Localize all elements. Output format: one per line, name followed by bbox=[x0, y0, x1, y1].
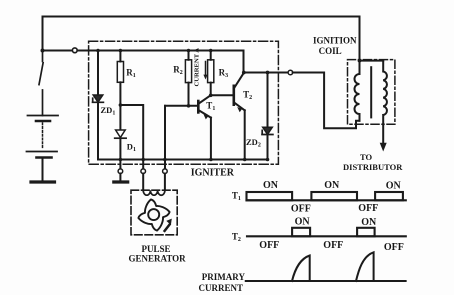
wire T1 collector to T2 base bbox=[211, 94, 234, 96]
svg-text:T1: T1 bbox=[206, 101, 215, 113]
node R1 top bbox=[119, 49, 123, 53]
wire output to coil primary bbox=[293, 73, 360, 129]
resistor R3 bbox=[208, 60, 214, 83]
resistor R2 bbox=[185, 60, 191, 83]
wire D1 to rail bbox=[119, 138, 121, 159]
svg-text:ON: ON bbox=[263, 180, 279, 191]
node R3 top bbox=[209, 49, 213, 53]
wire pin to ground bbox=[119, 174, 121, 181]
svg-text:IGNITION: IGNITION bbox=[313, 35, 357, 45]
wire T2 emitter to rail bbox=[244, 110, 246, 159]
current A arrow bbox=[205, 62, 207, 77]
coil secondary winding bbox=[383, 61, 387, 125]
wire R1 top lead bbox=[119, 51, 121, 62]
svg-text:ZD2: ZD2 bbox=[246, 137, 261, 149]
node T2 collector / output bbox=[242, 71, 246, 75]
wire ZD2 upper bbox=[267, 73, 269, 128]
svg-text:OFF: OFF bbox=[384, 242, 404, 253]
waveform primary current bbox=[246, 252, 406, 281]
wire pickup right vertical bbox=[164, 106, 166, 169]
svg-text:ON: ON bbox=[386, 180, 402, 191]
wire top horizontal bus bbox=[43, 16, 360, 18]
wire ZD1 branch upper bbox=[97, 51, 99, 95]
node ZD1 top bbox=[96, 49, 100, 53]
node rail dots bbox=[119, 158, 270, 162]
svg-text:OFF: OFF bbox=[323, 240, 343, 251]
wire ground rail bbox=[98, 159, 268, 161]
svg-text:R1: R1 bbox=[126, 67, 136, 79]
wire supply feed y=50.5 left of connector bbox=[43, 50, 73, 52]
wire R3 to T1 collector bbox=[210, 83, 212, 96]
rotor reluctor wheel bbox=[138, 199, 169, 230]
wire ZD1 branch lower bbox=[97, 102, 99, 159]
wire link to pickup left bbox=[120, 105, 143, 169]
switch blade bbox=[39, 51, 43, 116]
node ZD2 tap bbox=[266, 71, 270, 75]
wire HT output arrow bbox=[382, 124, 384, 144]
svg-text:ON: ON bbox=[295, 216, 311, 227]
svg-text:CURRENT A: CURRENT A bbox=[194, 48, 201, 87]
svg-text:PRIMARY: PRIMARY bbox=[202, 272, 246, 282]
svg-text:ON: ON bbox=[324, 180, 340, 191]
svg-text:T2: T2 bbox=[243, 90, 252, 102]
connector pin circle ground bbox=[118, 169, 123, 174]
wire top bus drop to coil bbox=[359, 17, 361, 61]
wire R1 to D1 bbox=[119, 82, 121, 129]
svg-text:D1: D1 bbox=[127, 142, 136, 154]
zener diode ZD2 bbox=[263, 127, 273, 134]
svg-text:CURRENT: CURRENT bbox=[199, 283, 244, 293]
ignition coil dash-dot box bbox=[348, 60, 395, 125]
ground battery bbox=[31, 180, 55, 183]
wire battery to ground bbox=[42, 159, 44, 181]
waveform T2 row bbox=[247, 228, 406, 237]
node R2 top bbox=[187, 49, 191, 53]
pulse generator dashed box bbox=[131, 190, 177, 235]
transistor T2 bbox=[233, 86, 236, 105]
svg-text:GENERATOR: GENERATOR bbox=[129, 253, 187, 263]
svg-text:OFF: OFF bbox=[291, 204, 311, 215]
coil primary winding bbox=[355, 61, 360, 121]
igniter dash-dot box bbox=[89, 41, 279, 164]
waveform T1 row baseline and pulses bbox=[247, 192, 406, 200]
connector pin circle supply bbox=[72, 48, 77, 53]
wire pins to pulse coil bbox=[143, 174, 165, 191]
svg-text:TO: TO bbox=[360, 152, 373, 162]
wire R3 top lead bbox=[210, 51, 212, 60]
svg-text:R3: R3 bbox=[219, 67, 229, 79]
svg-text:T1: T1 bbox=[232, 190, 241, 202]
coil core bbox=[370, 67, 372, 117]
wire ground pin drop bbox=[119, 160, 121, 169]
svg-text:COIL: COIL bbox=[319, 46, 342, 56]
rotation arrow bbox=[165, 225, 170, 231]
svg-text:IGNITER: IGNITER bbox=[191, 167, 235, 178]
wire ZD2 lower bbox=[267, 135, 269, 160]
wire output to box edge bbox=[244, 72, 288, 74]
battery B plates bbox=[28, 115, 59, 117]
diode D1 bbox=[116, 130, 126, 138]
resistor R1 bbox=[117, 62, 123, 83]
node coil top bbox=[358, 59, 362, 63]
connector pin circle pickup left bbox=[141, 169, 146, 174]
connector pin circle output bbox=[288, 70, 293, 75]
svg-text:T2: T2 bbox=[232, 232, 241, 244]
wire rail corner to collector node bbox=[243, 51, 245, 73]
zener diode ZD1 bbox=[93, 95, 103, 102]
wire left vertical from top bus to battery node bbox=[42, 17, 44, 51]
node T1 base bbox=[187, 104, 191, 108]
transistor T1 bbox=[197, 101, 200, 112]
node T1 collector bbox=[209, 94, 213, 98]
wire coil top link bbox=[360, 60, 384, 62]
connector pin circle pickup right bbox=[163, 169, 168, 174]
svg-text:DISTRIBUTOR: DISTRIBUTOR bbox=[343, 162, 403, 172]
svg-text:OFF: OFF bbox=[259, 240, 279, 251]
wire supply rail y=50.5 into igniter bbox=[77, 50, 243, 52]
node R1/D1/pickup junction bbox=[119, 103, 123, 107]
wire base wire T1 bbox=[165, 105, 198, 107]
svg-text:ON: ON bbox=[361, 217, 377, 228]
svg-text:OFF: OFF bbox=[358, 203, 378, 214]
wire R2 to base node bbox=[188, 83, 190, 106]
wire T1 emitter to rail bbox=[210, 118, 212, 160]
svg-text:ZD1: ZD1 bbox=[101, 105, 116, 117]
node battery/supply junction bbox=[41, 49, 45, 53]
wire R2 top lead bbox=[188, 51, 190, 60]
ground igniter bbox=[114, 180, 128, 183]
inductor pickup coil bbox=[143, 190, 165, 195]
svg-text:R2: R2 bbox=[173, 65, 183, 77]
